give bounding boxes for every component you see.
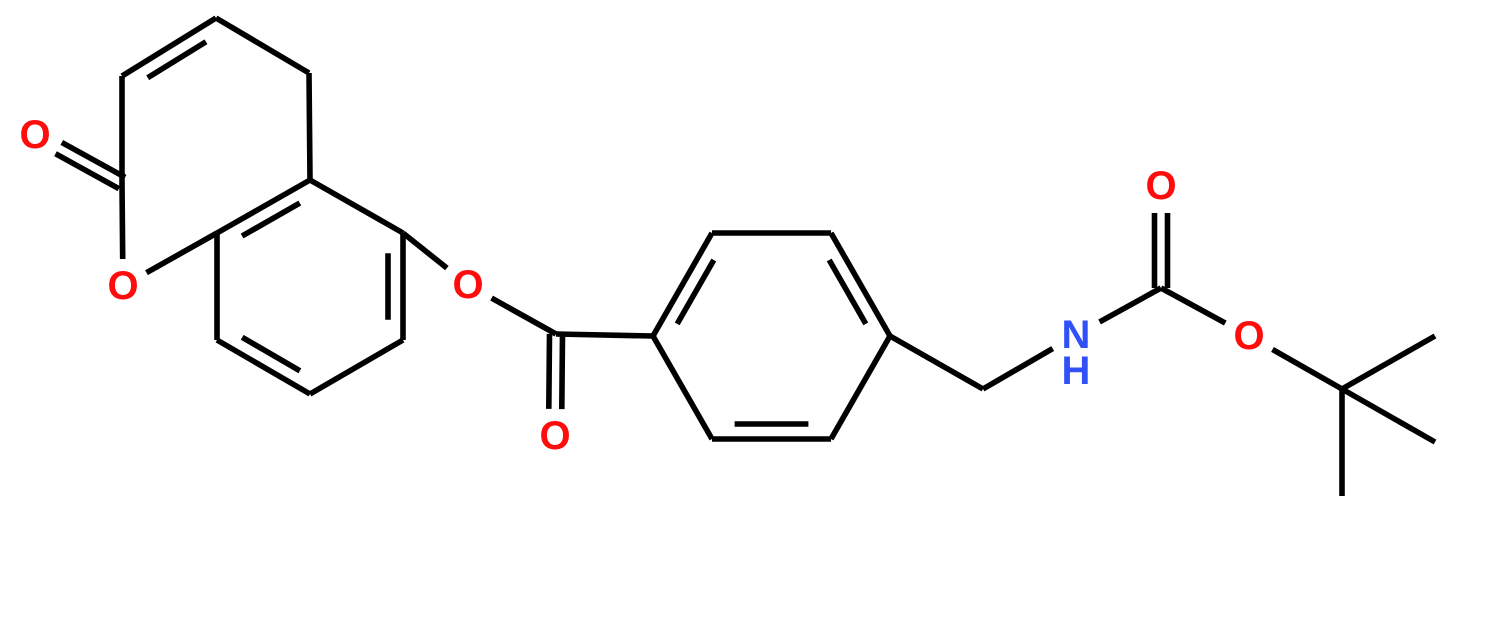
wire ester C=O [546, 334, 552, 409]
wire bond C5-C5a [309, 73, 310, 180]
wire bond N-carbC [1100, 288, 1161, 322]
svg-text:O: O [107, 264, 138, 308]
wire bond R-CH2 [890, 336, 983, 389]
wire bond carbC-Of [1161, 288, 1225, 323]
wire methyl [1342, 336, 1435, 389]
wire bond C5a-C6 [310, 180, 403, 233]
wire ester to ring [556, 334, 653, 336]
wire methyl [1342, 389, 1435, 442]
wire bond BL-L [653, 336, 712, 439]
wire C9a-O1 lactone [147, 233, 218, 273]
wire aromatic double bond C8=C9 [217, 340, 310, 394]
wire aromatic double bond L=TL [653, 233, 712, 336]
wire carbonyl C2=O [62, 142, 125, 177]
svg-text:O: O [1145, 164, 1176, 208]
wire bond Of-Cq [1273, 349, 1343, 389]
svg-text:O: O [452, 263, 483, 307]
svg-text:O: O [539, 414, 570, 458]
wire O1-C2 lactone [119, 183, 125, 259]
wire bond R-BR [831, 336, 890, 439]
wire carbamate C=O [1165, 213, 1171, 288]
wire bond Oc-eC [492, 298, 556, 334]
svg-text:O: O [1233, 314, 1264, 358]
wire bond TL-TR [712, 230, 831, 236]
wire methyl [1339, 389, 1345, 496]
wire aromatic double bond TR=R [831, 233, 890, 336]
wire C3=C4 double [122, 18, 216, 76]
wire aromatic double bond C9a=C5a [217, 180, 310, 233]
svg-text:O: O [19, 113, 50, 157]
svg-text:H: H [1062, 349, 1091, 393]
wire aromatic double bond C6=C7 [400, 233, 406, 340]
wire bond C7-C8 [310, 340, 403, 394]
wire bond C4-C5 [216, 18, 309, 73]
wire bond C9-C9a [214, 233, 220, 340]
wire bond C2-C3 [119, 76, 125, 183]
wire aromatic double bond BR=BL [712, 436, 831, 442]
wire bond CH2-N [983, 349, 1053, 389]
wire aryl O ester [403, 233, 447, 268]
